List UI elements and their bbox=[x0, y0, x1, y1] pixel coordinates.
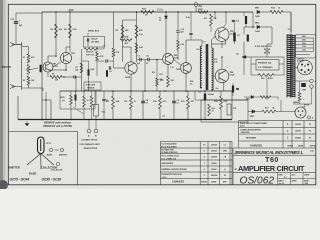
wire spk left bbox=[251, 63, 256, 65]
capacitor C18b bbox=[232, 86, 234, 93]
capacitor C6h bbox=[109, 66, 110, 69]
resistor R2 bbox=[27, 76, 30, 85]
resistor R21 bbox=[141, 11, 154, 14]
title block small cells bbox=[278, 173, 316, 185]
wire TR6 top bbox=[221, 57, 223, 69]
capacitor C14 bbox=[87, 38, 88, 42]
wire tap3 bbox=[295, 44, 314, 46]
resistor R5b bbox=[130, 96, 133, 109]
resistor R26 bbox=[83, 96, 86, 107]
pin circle E bbox=[60, 148, 63, 151]
socket mains input bbox=[295, 107, 306, 118]
wire x244 column bbox=[243, 12, 245, 16]
transistor TR2 bbox=[60, 52, 71, 63]
wire MR1 right bbox=[260, 11, 270, 13]
wire y88 link bbox=[22, 87, 29, 89]
wire drop x136 bbox=[136, 12, 138, 62]
panel voltage selector bbox=[296, 35, 316, 59]
wire c3 bbox=[103, 91, 105, 99]
resistor R11 bbox=[187, 96, 190, 109]
junction dot bbox=[55, 11, 57, 13]
capacitor C8 bbox=[148, 58, 149, 61]
junction dot bbox=[214, 11, 216, 13]
small circle E bbox=[307, 116, 310, 119]
capacitor C20 bbox=[189, 33, 192, 34]
resistor R15 bbox=[220, 96, 223, 109]
resistor R20 bbox=[198, 11, 208, 14]
capacitor C5 bbox=[88, 69, 90, 76]
wire 0V bottom rail bbox=[18, 119, 232, 121]
transformer T2 core bbox=[206, 44, 209, 90]
wire topcut bbox=[98, 48, 104, 50]
wire TR7 emitter link bbox=[225, 40, 227, 44]
wire vol wiper bbox=[82, 60, 89, 62]
wire MR2 right bbox=[260, 26, 272, 28]
box TONE LINK bbox=[84, 82, 101, 90]
transistor TR3 bbox=[163, 54, 174, 65]
wire R14 to T1 bbox=[283, 11, 291, 13]
resistor R10 bbox=[159, 96, 162, 109]
wire mr3 bbox=[248, 111, 252, 113]
wire tap4 bbox=[295, 47, 314, 49]
capacitor C10 bbox=[204, 94, 206, 101]
wire C7-C8 link bbox=[137, 59, 140, 61]
wire C14 down bbox=[87, 42, 89, 46]
diode MR1 bbox=[257, 10, 260, 13]
junction dot bbox=[204, 90, 206, 92]
wire drop x70 bbox=[69, 12, 71, 52]
resistor R5t bbox=[121, 25, 124, 38]
junction dot bbox=[112, 90, 114, 92]
wire TR6 collector bbox=[223, 82, 225, 91]
resistor R18 bbox=[258, 74, 274, 77]
diode MR3 bbox=[252, 110, 255, 113]
wire tr2b base bbox=[114, 67, 125, 69]
junction dot bbox=[136, 11, 138, 13]
wire x226 drop bbox=[225, 12, 227, 24]
enclosure legend box bbox=[9, 132, 78, 185]
capacitor C17b bbox=[245, 16, 247, 24]
enclosure bias box bbox=[201, 100, 248, 122]
capacitor C18 bbox=[301, 83, 306, 87]
resistor R16 bbox=[208, 104, 211, 116]
socket mains pins bbox=[298, 110, 300, 112]
box SPEAKER bbox=[256, 60, 279, 71]
socket V1 pins bbox=[301, 64, 303, 66]
transistor TR1 bbox=[43, 62, 53, 72]
wire v1 left bbox=[295, 67, 298, 69]
capacitor C5b bbox=[106, 59, 107, 62]
ground symbol bbox=[25, 122, 29, 126]
wire tap6 bbox=[295, 54, 310, 56]
wire C13 top bbox=[16, 13, 42, 22]
wire lower rail bbox=[201, 99, 248, 101]
wire conn A bbox=[88, 120, 90, 130]
wire TR7 collector bbox=[221, 42, 223, 49]
wire r18 drop bbox=[266, 75, 268, 100]
wire drops to 0V bbox=[112, 109, 114, 119]
capacitor C3b bbox=[74, 76, 75, 79]
wire C10 stubs bbox=[204, 91, 206, 94]
resistor R9t bbox=[135, 25, 138, 38]
wire drop x178 bbox=[177, 12, 179, 30]
wire conn B bbox=[95, 120, 97, 130]
wire C13 down bbox=[15, 23, 17, 44]
resistor R7b bbox=[80, 63, 83, 73]
junction dot bbox=[177, 11, 179, 13]
diode D1 bbox=[165, 16, 168, 18]
connector A bbox=[87, 129, 91, 133]
transistor TR4 bbox=[181, 63, 192, 74]
wire mid rail bbox=[60, 90, 232, 92]
wire drop x76 bbox=[75, 77, 77, 91]
wire TR2 collector bbox=[65, 47, 67, 52]
wire diag bbox=[73, 107, 84, 114]
wire r12 down bbox=[156, 86, 158, 91]
wire rail to diodes bbox=[252, 12, 254, 27]
wire metal box feed bbox=[87, 33, 89, 37]
capacitor C9 bbox=[172, 101, 176, 103]
wire speaker line bbox=[243, 56, 284, 58]
wire MR2 left bbox=[244, 26, 255, 28]
resistor R27 bbox=[90, 96, 93, 107]
wire r17 right bbox=[276, 111, 295, 113]
resistor R17 bbox=[262, 110, 276, 113]
capacitor C16 bbox=[176, 31, 179, 33]
junction dot bbox=[75, 90, 77, 92]
potentiometer VOL2 bbox=[94, 105, 99, 117]
node rail left corner bbox=[41, 12, 43, 120]
test point bbox=[194, 3, 198, 7]
lead wires bbox=[27, 154, 41, 166]
pin circle A2 bbox=[310, 85, 314, 89]
wire tap1 bbox=[295, 37, 314, 39]
wire taps right bbox=[313, 38, 315, 51]
transformer T2 secondary bbox=[212, 48, 214, 90]
wire speaker col bbox=[243, 57, 245, 75]
rule under jennings bbox=[233, 154, 316, 156]
wire selector down bbox=[266, 53, 268, 57]
wire r19b bbox=[271, 96, 278, 98]
wire TR4 emitter bbox=[185, 73, 187, 91]
wire drop x166 bbox=[165, 12, 167, 54]
wire TR3 emitter bbox=[167, 64, 169, 76]
wire -24V top rail bbox=[42, 11, 253, 13]
wire drop x215 bbox=[214, 12, 216, 19]
wire right col bbox=[280, 100, 282, 112]
wire r8b bbox=[113, 12, 115, 48]
pin dash bbox=[55, 149, 59, 151]
wire R23 down bbox=[177, 50, 179, 60]
resistor R23 bbox=[177, 40, 180, 50]
junction dot bbox=[130, 90, 132, 92]
capacitor C17 bbox=[233, 33, 235, 42]
wire drop x191 bbox=[190, 12, 192, 32]
table title block frame bbox=[233, 148, 316, 185]
potentiometer VR1 bbox=[27, 65, 30, 75]
wire tap2 bbox=[295, 40, 314, 42]
transformer T1 left rail bbox=[286, 35, 288, 98]
wire tap5 bbox=[295, 50, 314, 52]
resistor R25 bbox=[70, 95, 73, 105]
jack J1 bbox=[10, 43, 15, 47]
resistor R4b bbox=[112, 96, 115, 109]
resistor R19 bbox=[298, 92, 301, 101]
wire r9b bbox=[96, 47, 98, 52]
resistor R8b bbox=[112, 48, 115, 57]
wire tr2b emitter bbox=[130, 74, 132, 91]
rule under title bbox=[233, 172, 316, 174]
resistor R19b bbox=[260, 96, 271, 99]
resistor R6 bbox=[50, 76, 62, 79]
wire C16 down bbox=[177, 33, 179, 40]
wire C4 stubs bbox=[142, 91, 144, 101]
enclosure preamp box bbox=[17, 96, 19, 120]
junction dot bbox=[165, 11, 167, 13]
resistor R9b bbox=[96, 52, 99, 61]
capacitor C4 bbox=[141, 101, 145, 103]
jack J2 bbox=[10, 85, 15, 89]
wire c3b right bbox=[76, 76, 82, 78]
socket V1 bbox=[298, 60, 313, 75]
wire spk right bbox=[279, 63, 284, 65]
wire TR7 base bbox=[212, 36, 216, 40]
wire y109 link bbox=[60, 108, 95, 110]
resistor R1 bbox=[27, 54, 30, 63]
resistor R3 bbox=[55, 24, 58, 38]
wire TR4 collector bbox=[185, 40, 187, 63]
wire sock loop bbox=[295, 80, 310, 82]
wire drop x157 bbox=[156, 60, 158, 79]
wire c18b bbox=[232, 83, 234, 86]
diode MR5 bbox=[251, 96, 253, 99]
wire TR1 emitter down bbox=[47, 72, 49, 77]
wire r21b down bbox=[210, 26, 212, 32]
pin circle C bbox=[56, 162, 59, 165]
transistor TR2b bbox=[125, 62, 137, 74]
wire wiper bbox=[29, 68, 39, 70]
resistor R21b bbox=[210, 14, 213, 26]
wire drop x56 bbox=[55, 12, 57, 47]
transistor TR7 bbox=[215, 28, 229, 42]
wire drop x122 bbox=[122, 20, 124, 62]
wire stubs up bbox=[112, 91, 114, 96]
connector B bbox=[94, 129, 98, 133]
enclosure metal box bbox=[84, 37, 105, 48]
wire c5b bbox=[108, 60, 114, 62]
junction dot bbox=[185, 90, 187, 92]
wire y57 link bbox=[162, 58, 164, 61]
wire T2 top bbox=[201, 40, 203, 46]
wire chain bottom bbox=[28, 85, 30, 88]
transistor TR6 bbox=[215, 69, 229, 83]
wire chain top bbox=[28, 47, 30, 55]
thermistor TH1 bbox=[227, 104, 231, 115]
capacitor C3 bbox=[102, 99, 105, 100]
resistor R9 bbox=[135, 43, 138, 53]
capacitor C2 bbox=[40, 65, 42, 73]
transformer T1 windings bbox=[287, 35, 295, 96]
pin circle B bbox=[49, 148, 52, 151]
wire TR6 base bbox=[212, 75, 216, 77]
wire tr2b collector bbox=[130, 47, 132, 62]
wire T1 top feed bbox=[290, 12, 292, 35]
resistor R12 bbox=[156, 78, 159, 86]
capacitor C6e bbox=[106, 70, 108, 77]
wire r18 ends bbox=[251, 74, 258, 76]
arrow speaker bbox=[242, 56, 246, 59]
wire x195 down bbox=[194, 91, 196, 100]
capacitor C13 bbox=[14, 22, 19, 24]
wire TR2 emitter bbox=[65, 64, 67, 70]
wire TR4 base bbox=[173, 59, 181, 65]
diode MR2 bbox=[257, 25, 260, 28]
junction dot bbox=[144, 90, 146, 92]
junction dot bbox=[225, 11, 227, 13]
wire mr5 bbox=[244, 96, 251, 98]
wire below rail cluster bbox=[70, 91, 72, 95]
transformer T1 right rail bbox=[294, 35, 296, 98]
wire drop x81 bbox=[81, 49, 83, 91]
resistor R22 bbox=[120, 39, 132, 42]
transformer T1 core bbox=[290, 35, 292, 98]
wire TR1-TR2 base link bbox=[53, 62, 61, 67]
wire R6 right bbox=[62, 76, 73, 78]
pin circle A1 bbox=[310, 79, 314, 83]
wire c20 down bbox=[190, 36, 192, 40]
table left revisions bbox=[160, 142, 232, 185]
resistor R13 bbox=[167, 76, 170, 87]
wire TR1 collector bbox=[47, 56, 49, 62]
wire drop x145 bbox=[144, 60, 146, 92]
potentiometer top cut bbox=[84, 48, 98, 51]
capacitor C7 bbox=[140, 58, 141, 61]
junction dot bbox=[83, 90, 85, 92]
transformer T2 primary bbox=[200, 46, 202, 88]
switch selector bbox=[264, 49, 270, 53]
table right revisions bbox=[239, 121, 316, 149]
capacitor C25 bbox=[75, 95, 77, 101]
wire input bus bbox=[21, 42, 23, 90]
transistor outline drawing bbox=[38, 137, 45, 154]
junction dot bbox=[164, 90, 166, 92]
junction dot bbox=[69, 11, 71, 13]
resistor R4 bbox=[69, 24, 72, 38]
resistor R14 bbox=[270, 11, 283, 14]
wire C9 stubs bbox=[173, 91, 175, 101]
wire x232 vert bbox=[231, 91, 233, 120]
